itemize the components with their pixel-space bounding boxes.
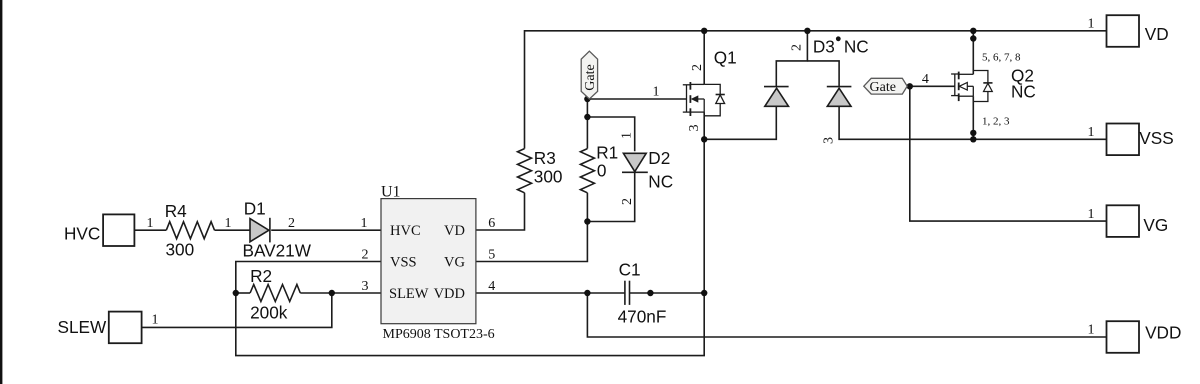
svg-text:VG: VG	[444, 255, 465, 271]
svg-text:300: 300	[534, 166, 563, 186]
svg-text:C1: C1	[619, 260, 641, 280]
svg-text:Gate: Gate	[583, 64, 598, 90]
svg-text:1: 1	[1088, 125, 1095, 140]
svg-text:VG: VG	[1143, 215, 1168, 235]
svg-text:VD: VD	[444, 223, 465, 239]
svg-text:1, 2, 3: 1, 2, 3	[982, 116, 1010, 128]
svg-text:1: 1	[1088, 207, 1095, 222]
svg-text:4: 4	[922, 72, 929, 87]
svg-text:1: 1	[152, 313, 159, 328]
svg-text:NC: NC	[844, 37, 869, 57]
svg-text:NC: NC	[648, 172, 673, 192]
svg-text:3: 3	[687, 125, 702, 132]
svg-text:2: 2	[620, 198, 635, 205]
svg-text:MP6908 TSOT23-6: MP6908 TSOT23-6	[383, 327, 495, 342]
svg-text:1: 1	[620, 132, 635, 139]
svg-text:NC: NC	[1011, 82, 1036, 102]
svg-text:Q1: Q1	[714, 48, 737, 68]
svg-text:5: 5	[488, 248, 495, 263]
svg-text:1: 1	[1088, 323, 1095, 338]
svg-text:3: 3	[362, 279, 369, 294]
svg-text:HVC: HVC	[390, 223, 421, 239]
svg-text:U1: U1	[381, 184, 401, 201]
svg-text:470nF: 470nF	[618, 306, 667, 326]
svg-text:VD: VD	[1145, 24, 1169, 44]
svg-text:1: 1	[225, 216, 232, 231]
svg-text:R3: R3	[534, 148, 556, 168]
svg-text:2: 2	[790, 44, 805, 51]
svg-text:1: 1	[361, 216, 368, 231]
svg-text:VDD: VDD	[1145, 322, 1181, 342]
svg-text:5, 6, 7, 8: 5, 6, 7, 8	[982, 52, 1021, 64]
svg-text:1: 1	[147, 216, 154, 231]
svg-text:1: 1	[1088, 17, 1095, 32]
svg-text:2: 2	[690, 64, 705, 71]
svg-text:R2: R2	[250, 266, 272, 286]
svg-text:0: 0	[597, 161, 607, 181]
svg-text:D3: D3	[813, 37, 835, 57]
svg-text:3: 3	[822, 137, 837, 144]
svg-text:200k: 200k	[250, 302, 288, 322]
svg-text:1: 1	[653, 85, 660, 100]
svg-text:6: 6	[488, 216, 495, 231]
svg-text:R4: R4	[165, 201, 187, 221]
svg-text:Gate: Gate	[870, 80, 896, 95]
svg-text:VSS: VSS	[390, 255, 417, 271]
svg-text:2: 2	[288, 216, 295, 231]
svg-text:300: 300	[166, 239, 195, 259]
svg-text:R1: R1	[596, 143, 618, 163]
svg-text:D2: D2	[648, 148, 670, 168]
svg-text:HVC: HVC	[64, 223, 100, 243]
svg-text:2: 2	[362, 248, 369, 263]
svg-text:SLEW: SLEW	[389, 286, 429, 302]
svg-text:BAV21W: BAV21W	[243, 241, 312, 261]
svg-text:VSS: VSS	[1139, 128, 1173, 148]
svg-text:4: 4	[488, 279, 495, 294]
svg-text:SLEW: SLEW	[58, 317, 107, 337]
svg-text:VDD: VDD	[434, 286, 465, 302]
svg-text:D1: D1	[244, 199, 266, 219]
